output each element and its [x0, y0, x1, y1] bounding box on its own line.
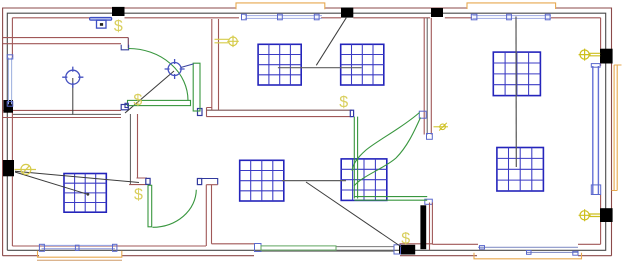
column C3 top wall — [431, 8, 443, 17]
window W2 mullion 2 — [507, 14, 512, 20]
column C5 right wall lower — [600, 208, 613, 222]
distribution board bar — [90, 17, 112, 20]
window W4 bottom bracket — [591, 185, 600, 195]
door frame bracket on V5 west face — [419, 111, 426, 118]
wall H3 right stub — [202, 179, 218, 185]
ceiling grid G — [497, 148, 544, 192]
window W5 middle mullion — [75, 245, 79, 250]
ceiling grid F — [341, 159, 387, 201]
green wire sweep curve lower — [354, 118, 421, 187]
window W6 right bracket — [394, 245, 401, 254]
column C6 bottom wall — [399, 245, 415, 255]
window W2 mullion 3 — [545, 14, 550, 20]
door frame jamb at H4 east end — [350, 110, 353, 116]
ceiling grid B — [341, 44, 384, 85]
window W7 left bracket — [480, 246, 485, 249]
door leaf horizontal in hall — [128, 100, 191, 105]
inner wall face line (bottom) — [12, 244, 600, 246]
window W7 slider panel line — [527, 251, 578, 253]
terrace outline below window W7 — [474, 253, 582, 259]
terrace outline below window W5 — [38, 251, 122, 257]
svg-text:$: $ — [401, 231, 410, 248]
wall light WL2 (yellow) — [215, 36, 239, 48]
green wire sweep curve upper — [352, 113, 419, 172]
window W2 mullion 1 — [471, 14, 477, 20]
svg-text:$: $ — [114, 18, 123, 35]
window W1 mullion 3 — [314, 14, 319, 20]
wire grid E to grid F — [282, 180, 346, 182]
wall H3 left stub — [129, 178, 147, 185]
junction dot at grid D center — [87, 193, 90, 196]
door frame jamb right of lower door — [197, 179, 201, 185]
sliding door panel in window W6 — [261, 246, 336, 250]
wall V5 lower — [430, 203, 433, 251]
distribution board dot — [100, 23, 103, 26]
window W1 mullion 2 — [278, 14, 283, 20]
ceiling grid C — [493, 52, 540, 96]
terrace outline above window W1 — [236, 3, 325, 9]
wire lamp L2 to switch S2 — [125, 71, 174, 113]
window W6 left bracket — [255, 244, 262, 252]
ceiling lamp L1 — [62, 67, 83, 88]
window W7 bottom-right sliding track — [478, 246, 578, 248]
terrace step line below window W5 — [37, 259, 122, 261]
terrace outline right side — [612, 65, 622, 191]
door swing arc hall upper — [129, 49, 189, 101]
ceiling grid E — [240, 160, 284, 201]
bottom-left room top wall H2 — [3, 110, 121, 117]
inner wall face line (top) — [12, 17, 600, 19]
wire column C8 to switch S3 — [15, 171, 139, 182]
wire lamp L1 drop — [72, 78, 74, 115]
wall light WL3 (yellow) — [579, 49, 601, 61]
window W3 bottom bracket — [7, 102, 13, 107]
wire grid A to grid B — [278, 67, 362, 69]
corridor bottom wall H1 — [3, 38, 128, 44]
door swing arc lower hall door — [153, 190, 197, 228]
column C8 left wall lower — [3, 160, 14, 176]
green wire pair vertical from H4 end — [354, 117, 357, 199]
window W1 mullion 1 — [242, 14, 247, 20]
dimmer switch at V5 doorway (yellow) — [434, 123, 449, 131]
ceiling grid A — [258, 44, 301, 85]
svg-text:$: $ — [133, 92, 142, 109]
wall V4 (hall/top-middle room divider) — [212, 19, 219, 110]
green wire pair horizontal to V5 — [354, 197, 427, 201]
window W3 top bracket — [7, 55, 13, 59]
window W3 left wall glazing — [8, 58, 11, 105]
door frame jamb at V5 lower end — [425, 199, 433, 204]
ceiling grid D — [64, 174, 106, 213]
wire top wall to grid C and grid G — [515, 17, 517, 168]
column C2 top wall — [341, 8, 353, 18]
window W7 right bracket — [573, 251, 578, 255]
door frame jamb at H2 east end — [121, 105, 128, 110]
wire column C8 to grid D center — [15, 172, 88, 194]
column C1 top wall — [112, 7, 125, 16]
door leaf vertical at V4 — [193, 63, 200, 111]
window W6 bottom-middle glazing — [255, 247, 394, 252]
wall V3 (hall/bottom-middle room divider) — [206, 185, 211, 246]
terrace outline above window W2 — [467, 3, 556, 9]
window W5 bottom-left glazing — [42, 245, 116, 248]
distribution board box — [97, 20, 107, 28]
wall H4 (top-middle/bottom-middle divider) — [206, 109, 351, 111]
wall light WL4 (yellow) — [579, 209, 600, 221]
door frame jamb at V5 upper end — [427, 134, 433, 140]
black chase bar next to V5 lower — [420, 205, 426, 249]
window W2 top wall glazing — [472, 16, 551, 19]
window W5 right bracket — [113, 244, 117, 251]
column C7 left wall upper — [3, 100, 13, 113]
window W4 top bracket — [591, 64, 600, 68]
svg-text:$: $ — [339, 94, 348, 111]
window W1 top wall glazing — [245, 16, 322, 19]
wall V5 upper (top-middle/top-right divider) — [424, 18, 431, 135]
wall V2 (right wall of bottom-left room) — [129, 114, 131, 185]
wire lamp L2 tail to door jamb — [181, 64, 194, 68]
window W5 left bracket — [39, 244, 44, 251]
door frame jamb left of lower door — [146, 178, 150, 184]
window W7 middle mullion — [527, 251, 532, 255]
wire junction to column C2 — [316, 18, 346, 66]
door frame jamb at corridor end — [121, 45, 128, 50]
inner wall face line (right) — [600, 18, 602, 245]
door frame jamb at V4 bottom — [198, 109, 203, 116]
svg-text:$: $ — [134, 187, 143, 204]
wire grid E to column C6 — [306, 182, 402, 247]
ceiling lamp L2 — [165, 59, 185, 79]
window W4 right wall glazing — [593, 66, 599, 195]
door leaf lower hall door — [148, 185, 152, 227]
inner wall face line (left) — [11, 18, 13, 246]
column C4 right wall upper — [600, 49, 613, 64]
wall lamp WL1 (yellow) — [15, 164, 37, 174]
